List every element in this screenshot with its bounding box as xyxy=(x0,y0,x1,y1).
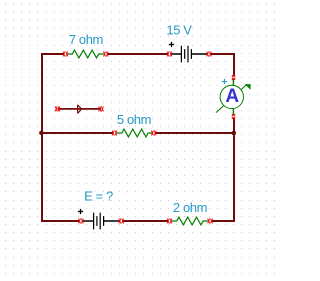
svg-text:7 ohm: 7 ohm xyxy=(69,32,103,47)
wire right upper to ammeter xyxy=(233,53,235,76)
wire top-right segment xyxy=(211,53,235,55)
terminal marks current arrow left xyxy=(55,106,60,111)
junction node left xyxy=(39,131,44,136)
terminal marks battery E right xyxy=(119,219,124,224)
terminal marks battery E left xyxy=(79,219,84,224)
terminal marks current arrow right xyxy=(99,106,104,111)
value label 2 ohm xyxy=(173,200,207,215)
value label 7 ohm xyxy=(69,32,103,47)
battery E = ? xyxy=(82,213,120,230)
wire bottom-middle segment xyxy=(123,220,168,222)
wire bottom-left segment xyxy=(41,220,80,222)
wire middle-left segment xyxy=(41,132,113,134)
ammeter needle line xyxy=(216,85,247,113)
wire left side xyxy=(41,53,43,222)
terminal marks battery 15 V left xyxy=(167,52,172,57)
terminal marks resistor 2 ohm right xyxy=(208,219,213,224)
terminal marks ammeter bottom xyxy=(232,114,235,119)
terminal marks resistor 5 ohm right xyxy=(151,131,156,136)
wire top-left segment xyxy=(41,53,64,55)
ammeter body circle xyxy=(220,85,243,108)
polarity plus battery E xyxy=(78,209,83,214)
battery 15 V xyxy=(171,46,208,63)
terminal marks resistor 2 ohm left xyxy=(167,219,172,224)
terminal marks ammeter top xyxy=(232,75,235,80)
value label 5 ohm xyxy=(117,112,151,127)
wire right lower from ammeter xyxy=(233,118,235,222)
ammeter bottom lead xyxy=(232,108,234,115)
junction node right xyxy=(232,131,237,136)
wire bottom-right segment xyxy=(212,220,235,222)
ammeter polarity plus xyxy=(222,79,227,84)
svg-text:15 V: 15 V xyxy=(166,22,192,37)
svg-text:E = ?: E = ? xyxy=(84,188,113,203)
ammeter letter A xyxy=(225,86,239,107)
resistor 2 ohm xyxy=(172,217,208,225)
ammeter needle arrowhead xyxy=(245,84,251,90)
wire top-middle segment xyxy=(108,53,169,55)
svg-text:2 ohm: 2 ohm xyxy=(173,200,207,215)
value label 15 V xyxy=(166,22,192,37)
terminal marks resistor 7 ohm right xyxy=(104,52,109,57)
terminal marks battery 15 V right xyxy=(207,52,212,57)
resistor 5 ohm xyxy=(117,129,153,137)
wire middle-right segment xyxy=(155,132,235,134)
terminal marks resistor 5 ohm left xyxy=(112,131,117,136)
resistor 7 ohm xyxy=(67,50,103,58)
ammeter top lead xyxy=(232,79,234,86)
svg-text:A: A xyxy=(225,86,239,107)
value label E = ? xyxy=(84,188,113,203)
polarity plus battery 15 V xyxy=(169,42,174,47)
terminal marks resistor 7 ohm left xyxy=(63,52,68,57)
svg-text:5 ohm: 5 ohm xyxy=(117,112,151,127)
current direction arrow xyxy=(58,105,101,114)
